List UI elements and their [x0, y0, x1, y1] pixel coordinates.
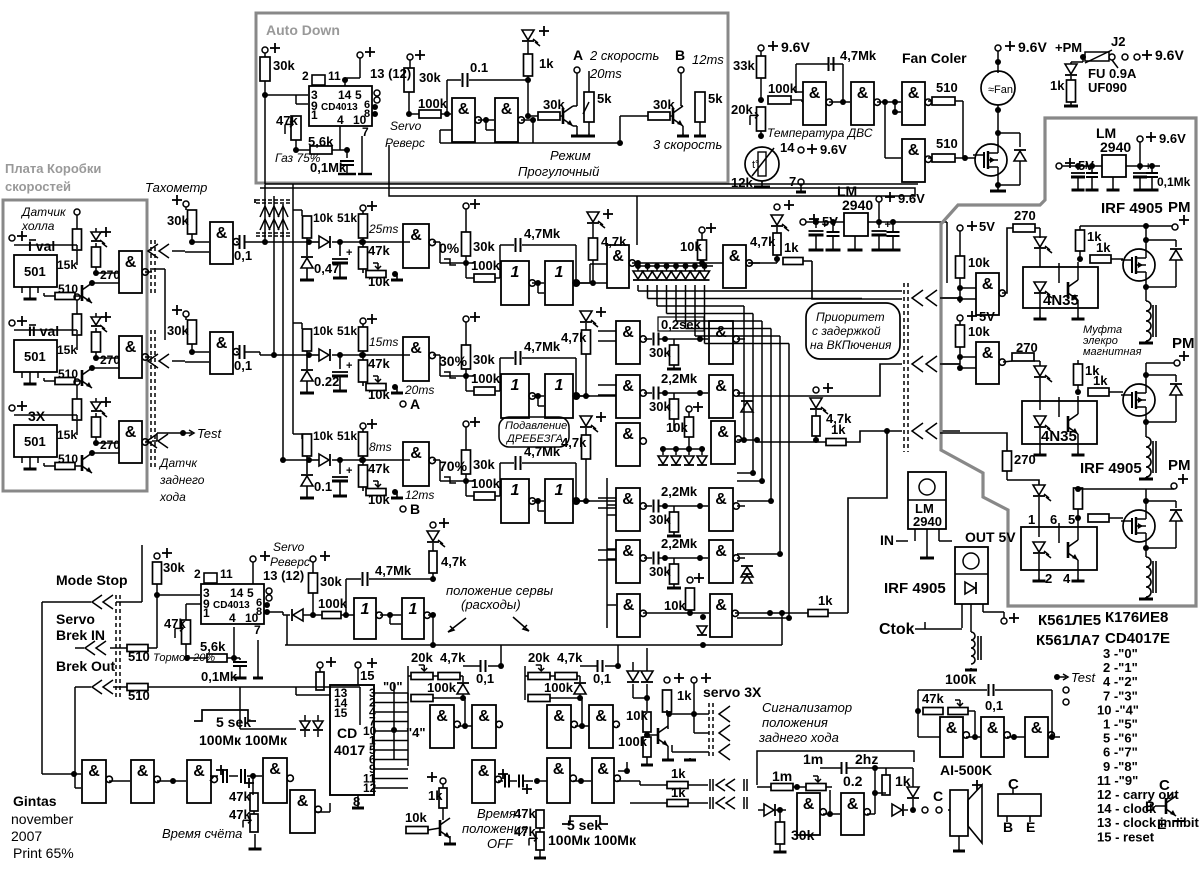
wire	[998, 132, 1020, 134]
wire m1-m2	[380, 614, 401, 616]
tach A to row1	[250, 241, 309, 243]
mosfet ch2	[1123, 384, 1155, 416]
resistor 47k pot	[291, 116, 301, 140]
ground	[1070, 102, 1072, 106]
CD4017 pin 1 wire	[374, 740, 408, 742]
svg-text:100Мк 100Мк: 100Мк 100Мк	[199, 732, 288, 748]
diode ch2	[1146, 374, 1176, 376]
wire base	[1155, 805, 1166, 807]
svg-text:&: &	[597, 761, 609, 778]
wire between	[532, 500, 544, 502]
resistor 270 ch2	[1012, 353, 1034, 361]
lower bus verticals	[743, 306, 745, 440]
svg-text:&: &	[553, 761, 565, 778]
svg-text:&: &	[946, 720, 958, 737]
wire gate	[965, 157, 975, 159]
svg-text:Тахометр: Тахометр	[145, 180, 207, 195]
wire	[185, 207, 187, 210]
grid AND gate left	[616, 375, 640, 418]
osc gate 3	[1025, 717, 1048, 757]
step symbol	[444, 372, 456, 378]
svg-text:10k: 10k	[666, 420, 688, 435]
staircase to lower grid	[657, 305, 744, 307]
ch1 arrow wire	[940, 297, 960, 299]
svg-text:4,7Mk: 4,7Mk	[840, 48, 877, 63]
diode fan	[1019, 133, 1021, 147]
svg-text:B: B	[1003, 819, 1013, 835]
wire bm	[643, 612, 709, 614]
wire	[76, 250, 78, 265]
wire out	[737, 392, 745, 394]
wire 47k	[185, 610, 187, 620]
svg-text:9.6V: 9.6V	[820, 142, 847, 157]
wire or2 out	[576, 395, 590, 397]
wires servo	[646, 732, 648, 737]
svg-text:&: &	[982, 276, 994, 293]
svg-text:C: C	[933, 788, 943, 804]
resistor 5,6k	[310, 146, 332, 154]
resistor 30k pullup	[463, 203, 469, 209]
LM2940 package	[908, 472, 946, 529]
junction	[813, 437, 819, 443]
wire to PM	[1080, 225, 1172, 227]
svg-text:&: &	[410, 340, 422, 357]
resistor 100k	[474, 387, 495, 395]
resistor 510	[55, 293, 75, 300]
svg-text:хода: хода	[159, 490, 186, 504]
svg-text:6: 6	[1050, 512, 1057, 527]
priority note box	[806, 303, 900, 359]
svg-text:270: 270	[100, 268, 120, 282]
resistor 51k	[362, 324, 364, 327]
resistor 100k	[411, 695, 433, 702]
LED ch1	[1034, 237, 1046, 247]
wire 47k to 5,6k	[295, 140, 297, 150]
svg-text:К561ЛЕ5: К561ЛЕ5	[1038, 612, 1101, 629]
svg-text:холла: холла	[21, 219, 55, 233]
gate output wire	[145, 271, 152, 273]
wire blk gates	[575, 725, 589, 727]
svg-text:Servo: Servo	[390, 119, 422, 133]
resistor 10k	[959, 231, 961, 256]
svg-text:30k: 30k	[649, 512, 671, 527]
LED ch3a	[1033, 485, 1045, 495]
sensor pins	[21, 457, 23, 463]
svg-text:4N35: 4N35	[1041, 428, 1077, 445]
series cap 0.1 feedback	[446, 80, 448, 114]
svg-text:servo 3X: servo 3X	[703, 684, 762, 700]
coil ch2	[1146, 437, 1151, 477]
svg-text:&: &	[715, 543, 727, 560]
resistor 51k	[362, 429, 364, 432]
connector arrow	[912, 290, 923, 306]
Test point	[1054, 674, 1060, 680]
svg-text:Датчик: Датчик	[20, 205, 67, 219]
chain wires	[42, 773, 81, 775]
terminal +	[101, 316, 111, 318]
junction	[957, 354, 963, 360]
wire pin4 down	[233, 627, 235, 658]
svg-text:10k: 10k	[968, 324, 990, 339]
bus x293 down	[292, 210, 294, 434]
CD4017 pin 4 wire	[374, 711, 408, 713]
grid AND gate right	[709, 488, 733, 531]
CD4017 pin 6 wire	[374, 759, 408, 761]
resistor 33k	[760, 51, 762, 56]
cap r2	[1091, 166, 1093, 172]
svg-text:5 sek: 5 sek	[216, 714, 251, 730]
resistor 10k mid	[686, 588, 695, 610]
resistor 47k	[359, 247, 368, 269]
ground	[396, 492, 398, 498]
junction	[306, 457, 312, 463]
electrolytic cap	[339, 460, 341, 474]
resistor 15k	[73, 399, 82, 420]
resistor 1k	[826, 439, 846, 446]
ground	[29, 463, 31, 467]
AND gate row input	[403, 224, 429, 268]
svg-text:B: B	[675, 47, 685, 63]
svg-text:&: &	[622, 378, 634, 395]
tach B to row2	[250, 351, 260, 353]
resistor 510	[932, 154, 955, 162]
svg-text:4,7k: 4,7k	[601, 234, 627, 249]
wires bt gates	[573, 780, 591, 782]
resistor 1k	[783, 258, 803, 265]
NAND chain gate 1	[82, 760, 106, 803]
svg-text:0,1: 0,1	[985, 698, 1003, 713]
svg-text:0.1: 0.1	[470, 60, 488, 75]
svg-text:9.6V: 9.6V	[1155, 47, 1184, 63]
svg-text:+: +	[346, 360, 352, 372]
svg-text:&: &	[908, 142, 920, 159]
CD4017 pin 9 wire	[374, 768, 408, 770]
svg-text:Температура ДВС: Температура ДВС	[767, 126, 873, 140]
svg-text:FU 0.9A: FU 0.9A	[1088, 66, 1137, 81]
caps between	[210, 775, 218, 777]
svg-text:+: +	[1145, 161, 1151, 173]
row1 10k + gate2	[699, 227, 705, 233]
svg-text:5k: 5k	[597, 91, 612, 106]
svg-text:ДРЕБЕЗГА: ДРЕБЕЗГА	[505, 433, 563, 445]
junction	[774, 256, 780, 262]
svg-text:7: 7	[789, 174, 796, 189]
svg-text:4,7k: 4,7k	[557, 650, 583, 665]
wire t1-t2	[829, 101, 850, 103]
svg-text:51k: 51k	[337, 211, 357, 225]
wire from arrows	[172, 360, 185, 362]
wire 510 to base	[75, 295, 82, 297]
resistor 510 out	[127, 684, 148, 691]
AND gate tachometer	[210, 332, 233, 374]
resistor 100k 2	[313, 614, 322, 616]
cap 2hz	[841, 762, 843, 774]
wire	[439, 376, 441, 391]
opto transistor	[1058, 263, 1060, 283]
diode blk	[574, 684, 586, 694]
diode cd2	[293, 609, 303, 621]
diode string row a	[660, 448, 705, 450]
wire or2 out	[576, 282, 590, 284]
AND gate row input	[403, 442, 429, 486]
wire 501 pin to 510	[43, 293, 45, 296]
svg-text:20k: 20k	[411, 650, 433, 665]
svg-text:4,7Mk: 4,7Mk	[375, 563, 412, 578]
wire 30kB left	[619, 116, 621, 143]
AND gate blk1	[547, 705, 571, 748]
svg-text:скоростей: скоростей	[5, 179, 71, 194]
svg-text:5 sek: 5 sek	[567, 817, 602, 833]
cap 2,2Mk	[653, 387, 655, 400]
wires mosfet ch3	[1145, 489, 1147, 510]
OR gate 2	[545, 261, 573, 305]
resistor 10k input	[303, 216, 312, 238]
Auto Down box	[256, 13, 728, 183]
pot osc	[948, 708, 968, 715]
resistor 10k bt	[406, 827, 428, 834]
fan motor	[981, 71, 1015, 105]
AND gate s1	[797, 793, 820, 835]
gate AND	[976, 342, 999, 384]
svg-text:5: 5	[1068, 512, 1075, 527]
wire 30k node	[439, 242, 441, 263]
svg-text:E: E	[1157, 816, 1166, 832]
svg-text:12ms: 12ms	[692, 52, 724, 67]
resistor 10k	[959, 321, 961, 325]
electrolytic cap	[339, 242, 341, 256]
IC CD4013 body	[201, 584, 264, 624]
svg-text:Режим: Режим	[550, 148, 591, 163]
svg-text:501: 501	[24, 349, 46, 364]
resistor 1k ch3	[1077, 488, 1079, 490]
bus verticals under AutoDown	[292, 184, 294, 210]
svg-text:510: 510	[936, 136, 958, 151]
svg-text:4: 4	[1063, 571, 1071, 586]
svg-text:30k: 30k	[473, 352, 495, 367]
junction	[957, 285, 963, 291]
wire gate inputs	[960, 287, 976, 289]
svg-text:&: &	[908, 85, 920, 102]
svg-text:14: 14	[780, 140, 795, 155]
feedback wire	[532, 120, 534, 143]
wire 501 to 15k	[14, 414, 77, 416]
diode row2 grid	[741, 402, 753, 412]
svg-text:2: 2	[194, 567, 201, 581]
resistor 1k	[524, 54, 533, 76]
svg-text:30k: 30k	[649, 399, 671, 414]
bus staircase from diode row	[637, 285, 639, 291]
wire gate out	[433, 241, 440, 243]
wire gate5 to cd4017	[317, 803, 319, 812]
resistor 510	[932, 97, 955, 105]
LM lead	[1112, 177, 1114, 190]
rail	[1062, 165, 1102, 167]
cap 4,7Mk fb	[842, 64, 844, 102]
svg-text:0,1: 0,1	[593, 671, 611, 686]
zigzag wires	[260, 206, 270, 217]
wire gate2 to node	[749, 258, 777, 260]
svg-text:2007: 2007	[11, 828, 42, 844]
wire to gate	[959, 278, 961, 299]
svg-text:&: &	[269, 761, 281, 778]
svg-text:1k: 1k	[831, 422, 846, 437]
resistor 4,7k servo pos	[432, 543, 434, 551]
wire LED chain	[95, 398, 97, 402]
svg-text:100k: 100k	[471, 258, 501, 273]
svg-text:1k: 1k	[1096, 240, 1111, 255]
wire J2	[1108, 56, 1110, 58]
osc gate 1	[940, 717, 963, 757]
wire 501 to 15k	[14, 329, 77, 331]
resistor 100k servo	[643, 737, 651, 757]
svg-text:PM: PM	[1168, 199, 1191, 216]
svg-text:30k: 30k	[167, 323, 189, 338]
junction	[337, 352, 343, 358]
cap 2,2Mk	[653, 500, 655, 513]
svg-text:30k: 30k	[167, 213, 189, 228]
transistor	[81, 285, 84, 301]
svg-text:15k: 15k	[57, 258, 77, 272]
svg-text:&: &	[803, 796, 815, 813]
svg-text:&: &	[297, 793, 309, 810]
wire emitter gnd	[667, 746, 669, 758]
cap 4,7Mk	[499, 245, 501, 278]
resistor 1k ch2b	[1088, 388, 1109, 396]
ground	[761, 181, 763, 187]
svg-text:&: &	[715, 324, 727, 341]
AND gate bm2	[710, 594, 732, 637]
grid mid-right AND gate	[711, 421, 735, 464]
resistor 510	[55, 463, 75, 470]
AND gate t1	[803, 82, 826, 125]
grid AND gate left	[616, 321, 640, 364]
wires 1k right	[639, 781, 641, 785]
resistor 30k 2	[312, 562, 314, 573]
svg-text:&: &	[622, 324, 634, 341]
svg-text:2,2Mk: 2,2Mk	[661, 371, 698, 386]
OR gate 2	[545, 374, 573, 418]
wire	[76, 335, 78, 350]
wire A term	[576, 73, 578, 106]
arrow left	[448, 618, 466, 632]
resistor 1k bt	[442, 784, 444, 788]
wire pin7	[257, 640, 259, 676]
svg-text:4,7Mk: 4,7Mk	[524, 226, 561, 241]
wire input to diode	[306, 351, 308, 355]
svg-text:положение сервы: положение сервы	[446, 583, 554, 598]
LM lead	[854, 236, 856, 250]
wire 501 pin to 510	[43, 378, 45, 381]
svg-text:1: 1	[555, 482, 564, 499]
wire gates	[478, 119, 494, 121]
svg-text:1k: 1k	[539, 56, 554, 71]
diode string row b	[638, 265, 713, 267]
resistor 30k	[673, 339, 675, 345]
svg-text:Test: Test	[1071, 670, 1096, 685]
svg-text:&: &	[622, 491, 634, 508]
svg-text:270: 270	[1014, 208, 1036, 223]
terminal +5V	[1056, 163, 1062, 169]
terminal +	[101, 231, 111, 233]
wire to gate	[192, 241, 209, 243]
svg-text:4,7k: 4,7k	[750, 234, 776, 249]
wire diode to 51k	[332, 354, 410, 356]
wires blk	[525, 675, 528, 677]
resistor 15k	[73, 229, 82, 250]
AND gate blk2	[472, 705, 496, 748]
LED inside	[1034, 282, 1046, 292]
gate output wire	[145, 356, 152, 358]
terminal A	[400, 401, 406, 407]
wire brek out	[75, 686, 91, 688]
gate AND	[976, 273, 999, 315]
cap osc	[988, 684, 990, 696]
connector arrows	[148, 244, 158, 258]
pot 10k	[362, 382, 364, 386]
signal block wire box	[757, 751, 914, 785]
svg-text:10k: 10k	[368, 274, 390, 289]
AND gate bt3	[592, 758, 614, 803]
grid AND gate right	[709, 321, 733, 364]
vertical from bus above	[636, 196, 638, 245]
svg-text:510: 510	[58, 452, 78, 466]
wire to gate	[96, 442, 119, 444]
svg-text:Тормоз 20%: Тормоз 20%	[153, 652, 215, 664]
CD4017 pin 3 wire	[374, 692, 408, 694]
wire into pins	[296, 694, 330, 696]
wire LED chain	[95, 313, 97, 317]
connector arrow 3X	[147, 434, 157, 448]
svg-text:CD: CD	[337, 725, 357, 741]
optocoupler 4N35 ch1	[1023, 267, 1098, 308]
svg-text:2,2Mk: 2,2Mk	[661, 484, 698, 499]
AND gate blk1	[430, 705, 454, 748]
wire B term	[680, 73, 682, 106]
svg-text:1k: 1k	[784, 240, 799, 255]
wire diode to 51k	[332, 459, 410, 461]
resistor 30k pullup	[463, 316, 469, 322]
wire mid out to 1k node	[757, 440, 759, 442]
svg-text:100k: 100k	[427, 680, 457, 695]
AND gate	[119, 336, 142, 378]
AND gate 1	[452, 98, 475, 142]
svg-text:1: 1	[311, 108, 318, 122]
ground	[306, 494, 308, 498]
svg-text:5: 5	[247, 586, 254, 600]
svg-text:CD4017Е: CD4017Е	[1105, 630, 1170, 647]
resistor 30k	[188, 320, 197, 344]
coil sense	[971, 632, 975, 664]
svg-text:&: &	[715, 597, 727, 614]
terminal +	[250, 556, 256, 562]
svg-text:47k: 47k	[514, 806, 536, 821]
CD4017 pin 11 wire	[374, 778, 408, 780]
pot 0.2	[806, 784, 826, 791]
NAND chain gate 4	[263, 758, 287, 803]
wire 501 to 15k	[14, 244, 77, 246]
terminal B	[400, 506, 406, 512]
wire gate out	[632, 262, 723, 264]
OR gate 1	[501, 261, 529, 305]
svg-text:47k: 47k	[229, 789, 251, 804]
wire down	[673, 419, 675, 431]
wire	[644, 557, 652, 559]
resistor 47k	[359, 465, 368, 487]
wire gate out	[433, 354, 440, 356]
svg-text:30k: 30k	[473, 239, 495, 254]
svg-text:2hz: 2hz	[855, 751, 878, 767]
pot 5k B	[695, 92, 705, 122]
